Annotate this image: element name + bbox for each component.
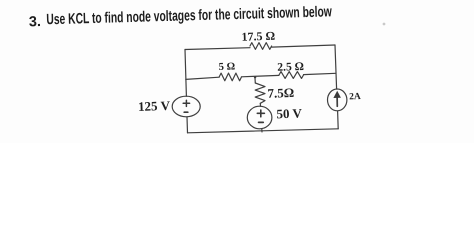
svg-text:3.: 3. [29,14,42,30]
svg-text:Use KCL to find node voltages: Use KCL to find node voltages for the ci… [46,3,332,28]
svg-text:17.5 Ω: 17.5 Ω [241,29,275,44]
svg-text:125 V: 125 V [138,98,171,114]
svg-text:5 Ω: 5 Ω [219,61,236,73]
svg-text:2A: 2A [349,92,361,102]
svg-text:7.5Ω: 7.5Ω [267,85,294,101]
svg-text:2.5 Ω: 2.5 Ω [277,60,304,74]
svg-text:50 V: 50 V [276,105,303,121]
